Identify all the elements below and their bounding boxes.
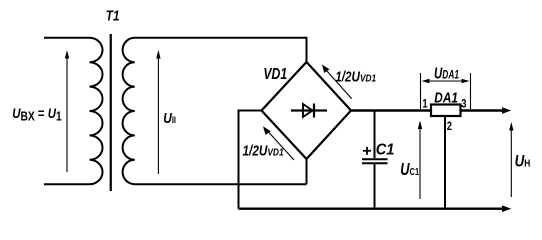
plus sign of C1 xyxy=(363,147,371,155)
regulator DA1 xyxy=(431,105,461,117)
arrow U1 xyxy=(65,50,69,172)
svg-text:UBX = U1: UBX = U1 xyxy=(12,105,62,124)
arrowhead output bus xyxy=(502,107,511,114)
wire bottom bus xyxy=(239,207,504,209)
label U_BX = U_1 xyxy=(12,105,62,124)
pin 3 label xyxy=(461,98,466,111)
svg-text:T1: T1 xyxy=(106,7,120,24)
label DA1 xyxy=(434,89,458,106)
bridge rectifier VD1 diamond xyxy=(262,62,352,159)
svg-text:2: 2 xyxy=(447,120,452,133)
pin 2 wire xyxy=(444,116,446,209)
label C1 xyxy=(376,141,395,159)
annotation arrow 1/2UVD1 top xyxy=(322,65,352,99)
transformer core xyxy=(110,34,112,191)
arrow UII xyxy=(156,50,160,174)
annotation arrow 1/2UVD1 bottom xyxy=(263,126,294,160)
label U_DA1 xyxy=(434,63,459,81)
label UC1 xyxy=(400,160,419,179)
label T1 xyxy=(106,7,120,24)
svg-text:3: 3 xyxy=(461,98,466,111)
primary winding of T1 xyxy=(90,38,103,184)
label 1/2UVD1 top xyxy=(335,68,376,85)
wire secondary top lead to bridge top vertex xyxy=(135,38,307,62)
label 1/2UVD1 bottom xyxy=(243,142,284,159)
wire secondary bottom lead xyxy=(135,183,307,185)
arrow UC1 xyxy=(418,121,422,200)
U_DA1 double arrow xyxy=(422,79,470,83)
label UII xyxy=(163,109,176,126)
wire primary top lead xyxy=(44,37,90,39)
wire output bus from bridge right vertex xyxy=(351,109,503,111)
arrowhead bottom bus output xyxy=(502,205,511,212)
wire bridge left vertex to bottom bus xyxy=(239,111,262,209)
svg-text:C1: C1 xyxy=(376,141,395,159)
svg-text:1: 1 xyxy=(422,98,427,111)
svg-text:DA1: DA1 xyxy=(434,89,458,106)
wire bridge bottom vertex drop xyxy=(306,159,308,184)
pin 1 label xyxy=(422,98,427,111)
secondary winding of T1 xyxy=(123,38,135,184)
pin 2 label xyxy=(447,120,452,133)
label UH xyxy=(515,152,531,171)
arrow UH xyxy=(509,122,513,197)
label VD1 xyxy=(263,64,287,82)
diode inside VD1 xyxy=(291,104,327,118)
svg-text:VD1: VD1 xyxy=(263,64,287,82)
capacitor C1 xyxy=(362,111,388,209)
U_DA1 measurement ticks xyxy=(421,73,471,109)
wire primary bottom lead xyxy=(44,183,90,185)
